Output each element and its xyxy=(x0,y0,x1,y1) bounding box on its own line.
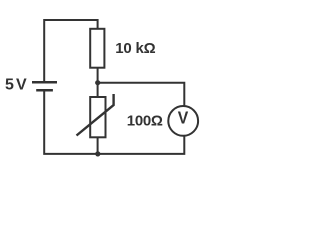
thermistor RT body xyxy=(90,97,105,137)
node B (junction dot) xyxy=(95,151,100,156)
wire: node A right to voltmeter top xyxy=(98,83,185,106)
thermistor RT diagonal stroke with tail xyxy=(77,94,114,136)
battery B1: short negative plate xyxy=(36,89,53,92)
voltmeter V1 circle xyxy=(168,106,198,136)
wire: node B right to voltmeter bottom xyxy=(98,136,185,154)
wire: battery + up to top-left corner, across top, down to R1 top xyxy=(44,20,97,82)
svg-text:V: V xyxy=(178,107,189,127)
resistor R1 body xyxy=(90,29,104,68)
svg-text:5 V: 5 V xyxy=(5,76,27,93)
wire: thermistor bottom to node B xyxy=(97,138,99,155)
node A (junction dot) xyxy=(95,80,100,85)
svg-text:10 kΩ: 10 kΩ xyxy=(115,40,155,57)
battery B1: long positive plate xyxy=(32,81,57,84)
wire: R1 bottom through node A to thermistor top xyxy=(97,68,99,98)
svg-text:100Ω: 100Ω xyxy=(127,112,163,129)
wire: battery - down to bottom-left corner, across bottom to node B xyxy=(44,90,97,154)
